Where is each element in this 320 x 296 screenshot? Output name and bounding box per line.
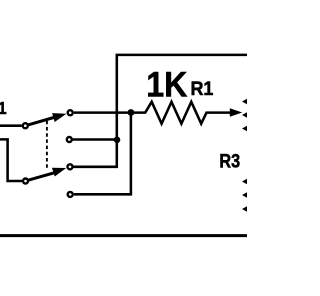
svg-text:1K: 1K bbox=[146, 65, 188, 105]
svg-text:R1: R1 bbox=[190, 77, 213, 99]
svg-text:1: 1 bbox=[0, 98, 7, 118]
svg-text:R3: R3 bbox=[219, 150, 240, 172]
